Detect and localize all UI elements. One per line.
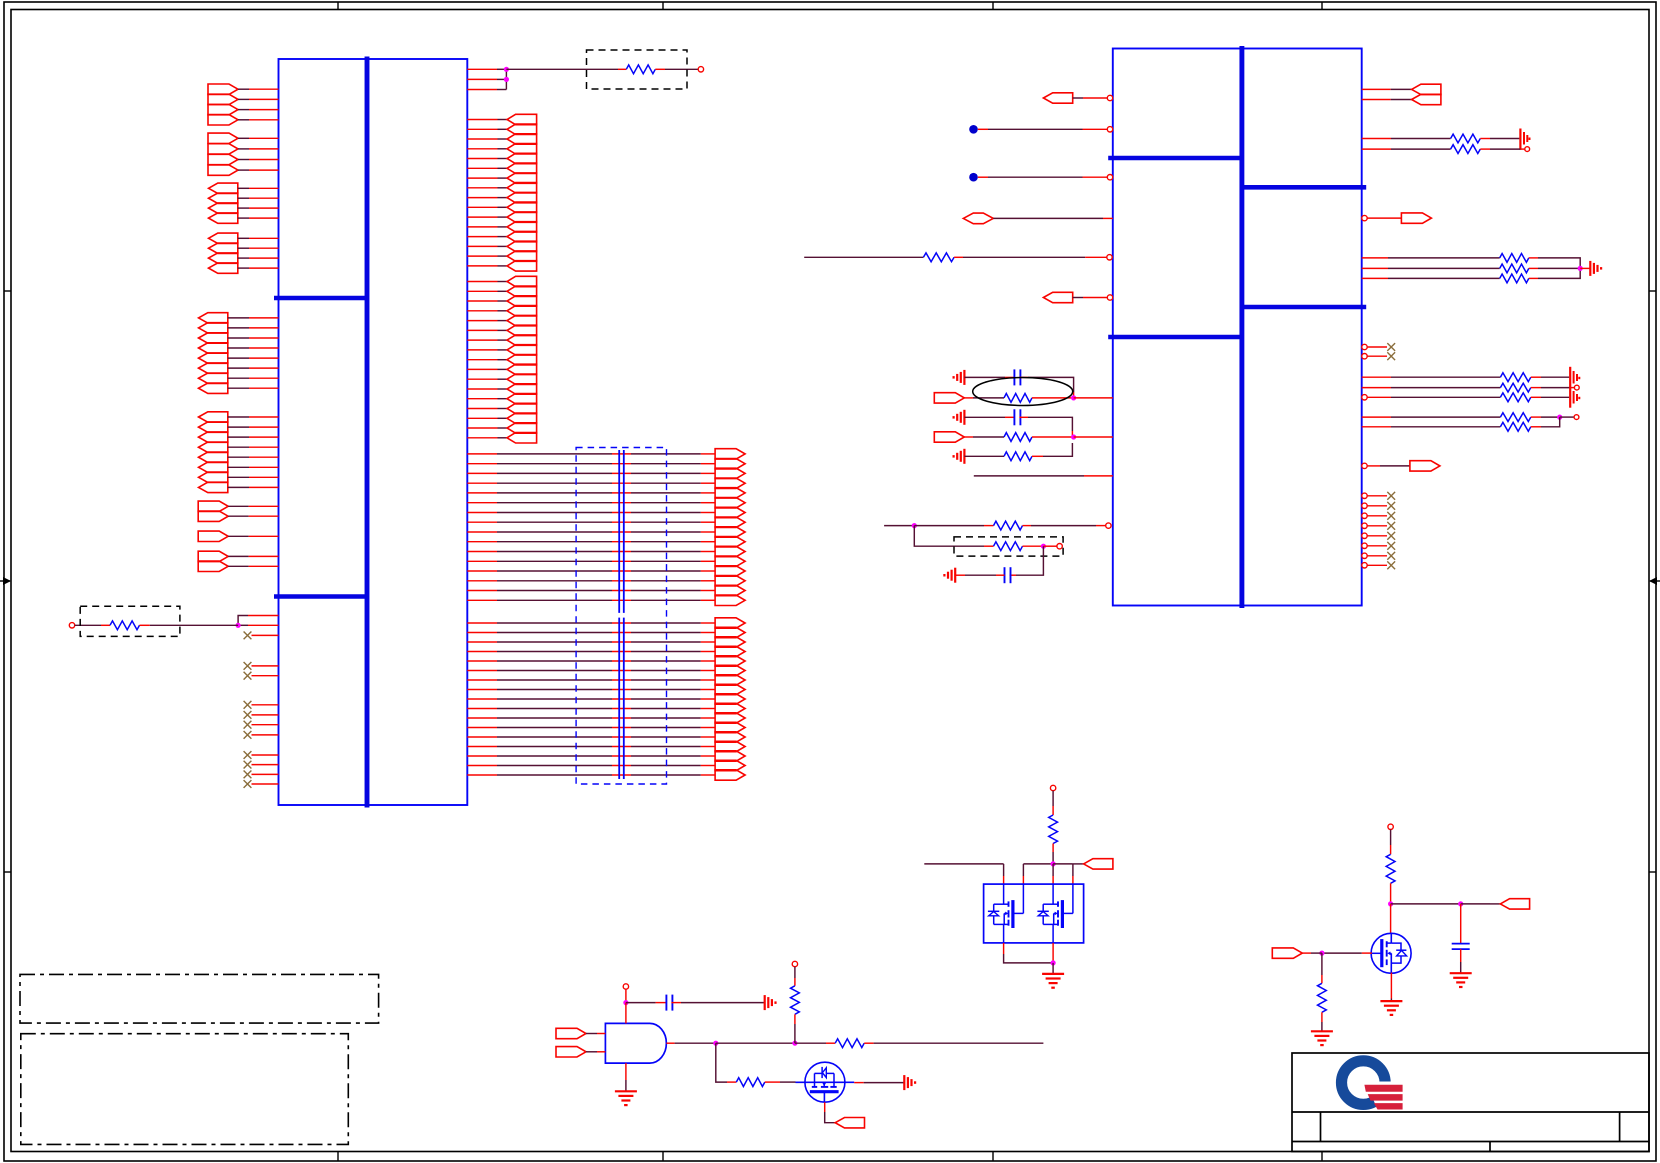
flag Q2 source [835, 1118, 864, 1128]
U2 pin R13 bubble [1362, 395, 1367, 400]
U1 output flag/pin group C1 [209, 183, 279, 193]
U1 input flag/pin group G1 [198, 501, 278, 511]
U2 pin RX2 bubble+X [1362, 502, 1395, 510]
wire J12 to J13 [716, 1042, 795, 1044]
transistor Q3 circle [1371, 933, 1411, 973]
wire W10 [884, 525, 914, 527]
U1 pin R1b wire [467, 78, 506, 80]
resistor R19 (vertical) [1049, 815, 1058, 844]
wire Q1A source [1004, 943, 1054, 963]
junction J6 [1041, 544, 1046, 549]
U1 output pin/flag col1-4 [467, 144, 536, 154]
U1 output pin/flag col1-11 [467, 212, 536, 222]
U2 pin R1 wire/flag [1362, 84, 1441, 94]
Q2 gate line [796, 1081, 855, 1083]
U2 pin R15 wire [1362, 426, 1501, 428]
wire J15 to flag [1461, 903, 1501, 905]
IC U1 thick divider [365, 57, 370, 808]
resistor R9 [1451, 134, 1481, 143]
U1 output flag/pin group C4 [209, 213, 279, 223]
U2 pin R16 wire/flag [1367, 461, 1440, 471]
wire P10 down [1390, 830, 1392, 855]
ground G11 (rotated) [904, 1075, 915, 1090]
Q1B gate link [1072, 884, 1074, 913]
U1 output pin/flag col2-13 [467, 394, 536, 404]
ground G4 (rotated) [944, 568, 955, 583]
ground G3 (rotated) [954, 449, 965, 464]
U2 pin L6 flag [1043, 292, 1107, 302]
wire C2 corner [1019, 417, 1072, 437]
wire Q2 source [825, 1102, 836, 1122]
wire R5 to junction [1032, 436, 1072, 438]
U1 output flag/pin group D2 [209, 243, 279, 253]
ground G13 [1311, 1031, 1333, 1045]
wire C1 corner [1019, 377, 1073, 398]
bus wire 15 [467, 585, 745, 595]
wire U3 bottom [625, 1063, 627, 1091]
wire R2 to terminal [655, 68, 698, 70]
flag VOUT [1500, 899, 1529, 909]
U1 output flag/pin group E4 [199, 343, 279, 353]
U1 output flag/pin group E3 [199, 333, 279, 343]
bus wire 13 [467, 566, 745, 576]
no-connect pin U1 X7 [244, 731, 279, 739]
IC U2 left section outline [1113, 49, 1242, 606]
U1 output pin/flag col2-6 [467, 325, 536, 335]
resistor R15 [1500, 383, 1530, 392]
U1 output flag/pin group F5 [199, 452, 279, 462]
U2 pin RX8 bubble+X [1362, 561, 1395, 569]
connector bar 2b [623, 618, 625, 779]
no-connect pin U1 X5 [244, 711, 279, 719]
wire G3 to R6 [965, 455, 1005, 457]
resistor R1 [110, 621, 140, 630]
wire R20 to J13 [794, 1014, 796, 1043]
ground bars G7 [1570, 367, 1579, 408]
U1 output pin/flag col1-2 [467, 124, 536, 134]
bus wire 28 [467, 722, 745, 732]
ellipse annotation [973, 378, 1073, 406]
bus wire 20 [467, 646, 745, 656]
bus wire 26 [467, 703, 745, 713]
U1 output flag/pin group E8 [199, 383, 279, 393]
bus wire 31 [467, 751, 745, 761]
no-connect pin U1 X1 [244, 632, 279, 640]
no-connect pin U1 X10 [244, 771, 279, 779]
resistor R12 [1500, 264, 1529, 273]
ground G10 [615, 1091, 637, 1105]
U2 pin RX1 bubble+X [1362, 492, 1395, 500]
wire R3 to U2 [954, 256, 1107, 258]
wire R6 corner up [1032, 443, 1072, 456]
U1 output pin/flag col1-8 [467, 183, 536, 193]
resistor R7 [994, 521, 1023, 530]
wire C4 to G9 [671, 1002, 764, 1004]
wire R9 to ground [1480, 138, 1519, 140]
wire R18 corner up [1531, 417, 1560, 427]
U2 pin L4 flag [963, 213, 1113, 224]
Q1A gate link [1022, 884, 1024, 913]
bus wire 6 [467, 498, 745, 508]
U1 output pin/flag col1-16 [467, 261, 536, 271]
net stub dot 2 [969, 173, 978, 182]
U1 output pin/flag col1-10 [467, 202, 536, 212]
U2 pin RX5 bubble+X [1362, 532, 1395, 540]
dash-dot box 2 [21, 1034, 349, 1145]
terminal circle P8 [623, 984, 628, 989]
U1 output pin/flag col2-2 [467, 286, 536, 296]
capacitor C1 [1014, 369, 1020, 385]
bus wire 10 [467, 537, 745, 547]
terminal circle P10 [1388, 824, 1393, 829]
wire C3 to G4 [955, 574, 1004, 576]
U1 output pin/flag col2-11 [467, 374, 536, 384]
U1 output flag/pin group E7 [199, 373, 279, 383]
resistor R16 [1500, 393, 1530, 402]
junction J5 [912, 523, 917, 528]
junction J13 [792, 1041, 797, 1046]
U1 output pin/flag col2-3 [467, 296, 536, 306]
junction J15 [1458, 901, 1463, 906]
capacitor C4 [666, 995, 672, 1011]
wire J14 to Q3 drain [1390, 904, 1392, 934]
junction J7 [1578, 266, 1583, 271]
U1 input flag/pin group B3 [208, 154, 279, 164]
wire J16 down [1321, 953, 1323, 983]
frame right arrow [1649, 577, 1660, 585]
U2 pin L10 bubble [1106, 523, 1111, 528]
ground G12 [1450, 973, 1472, 987]
junction J10 [1051, 960, 1056, 965]
terminal circle P1 [69, 623, 74, 628]
U1 input flag/pin group B4 [208, 165, 279, 175]
wire J15 down to C5 [1460, 904, 1462, 944]
terminal circle P6 [1574, 415, 1579, 420]
U2 pin R11 wire [1362, 376, 1501, 378]
bus wire 16 [467, 595, 745, 605]
U2 pin R9 bubble+X [1362, 343, 1395, 351]
capacitor C5 [1452, 944, 1470, 950]
resistor R2 [626, 65, 655, 74]
Q3 internals [1371, 934, 1406, 973]
junction at U1 J pins [236, 623, 241, 628]
ground G6 (rotated) [1590, 261, 1601, 276]
U1 output flag/pin group C3 [209, 203, 279, 213]
flag gate in [1272, 948, 1302, 958]
terminal circle P7 [1050, 785, 1055, 790]
U1 output pin/flag col1-1 [467, 114, 536, 124]
wire J11 to C4 [626, 1002, 667, 1004]
junction J16 [1319, 951, 1324, 956]
wire J6 to terminal [1043, 545, 1057, 547]
capacitor C3 [1005, 567, 1011, 583]
U2 pin L7 flag [934, 393, 1004, 403]
U1 output pin/flag col1-15 [467, 251, 536, 261]
U2 pin L1 bubble [1107, 95, 1112, 100]
U1 output flag/pin group F1 [199, 412, 279, 422]
U2 pin R12 wire [1362, 387, 1501, 389]
resistor R18 [1500, 422, 1530, 431]
U1 output flag/pin group D1 [209, 233, 279, 243]
resistor R10 [1451, 145, 1481, 154]
bus wire 25 [467, 694, 745, 704]
U2 pin RX3 bubble+X [1362, 512, 1395, 520]
terminal circle P3 [1057, 544, 1062, 549]
Q2 internals [810, 1067, 839, 1102]
terminal circle P5 [1574, 385, 1579, 390]
U1 input flag/pin group I1 [198, 551, 278, 561]
U1 pin R1c wire [467, 89, 506, 91]
MOSFET Q1B [1037, 884, 1073, 943]
bus wire 19 [467, 637, 745, 647]
junction J2 [504, 77, 509, 82]
resistor R23 (vertical) [1386, 854, 1395, 883]
wire P8 to J11 [625, 989, 627, 1002]
U1 output pin/flag col2-4 [467, 306, 536, 316]
wire Q3 gate [1322, 952, 1372, 954]
U2 pin RX7 bubble+X [1362, 552, 1395, 560]
dashed box around R2 [587, 50, 688, 89]
junction J4 [1071, 434, 1076, 439]
resistor R17 [1500, 413, 1530, 422]
U2 pin RX6 bubble+X [1362, 542, 1395, 550]
U1 output flag/pin group C2 [209, 193, 279, 203]
no-connect pin U1 X3 [244, 672, 279, 680]
connector bar 1a [618, 450, 620, 613]
U1 output pin/flag col2-1 [467, 276, 536, 286]
bus wire 29 [467, 732, 745, 742]
wire gate drop 1 [1003, 864, 1005, 884]
resistor R11 [1500, 254, 1529, 263]
resistor R20 (vertical) [791, 986, 800, 1015]
AND gate U3 [605, 1023, 666, 1063]
resistor R13 [1500, 274, 1529, 283]
MOSFET Q1A [988, 884, 1024, 943]
U2 pin L1 flag [1043, 93, 1107, 103]
wire J13 to R21 [795, 1042, 835, 1044]
U1 output flag/pin group F8 [199, 482, 279, 492]
transistor Q2 circle [805, 1062, 845, 1102]
bus wire 9 [467, 527, 745, 537]
wire R12 to junction [1529, 267, 1580, 269]
U2 pin L2 bubble [1107, 127, 1112, 132]
U2 pin R6 wire [1362, 257, 1500, 259]
connector bar 1b [618, 618, 620, 779]
flag dual-gate [1073, 859, 1113, 869]
wire flag branch [1053, 864, 1073, 884]
U2 pin L9 wire [974, 475, 1113, 477]
U1 output flag/pin group F3 [199, 432, 279, 442]
bus wire 11 [467, 546, 745, 556]
U1 output flag/pin group D4 [209, 263, 279, 273]
resistor R6 [1004, 452, 1032, 461]
U1 input flag/pin group B2 [208, 144, 279, 154]
bus wire 14 [467, 576, 745, 586]
U1 output pin/flag col2-7 [467, 335, 536, 345]
IC U1 right section outline [367, 59, 467, 805]
U1 output pin/flag col1-3 [467, 134, 536, 144]
resistor R22 [736, 1078, 765, 1087]
junction J1 [504, 67, 509, 72]
IC U2 right divider 1 [1242, 185, 1366, 190]
wire C5 to ground [1460, 949, 1462, 972]
IC U1 section divider 1 [274, 296, 367, 301]
wire gate bus [924, 863, 1003, 865]
wire Q3 source down [1390, 973, 1392, 1001]
wire R23 to J14 [1390, 883, 1392, 904]
dual MOSFET pack outline Q1 [984, 884, 1084, 943]
U1 input flag/pin group B1 [208, 133, 279, 143]
U2 pin R14 wire [1362, 416, 1501, 418]
dashed box around R8 [954, 537, 1063, 556]
U1 input flag/pin group G2 [198, 511, 278, 521]
bus wire 24 [467, 684, 745, 694]
terminal circle P9 [792, 961, 797, 966]
dashed connector box [576, 448, 666, 785]
bus wire 32 [467, 760, 745, 770]
U1 output flag/pin group E1 [199, 313, 279, 323]
bus wire 23 [467, 675, 745, 685]
U3 input flag 2 [556, 1047, 605, 1057]
U2 pin L5 bubble [1107, 255, 1112, 260]
wire J8 to terminal [1560, 416, 1574, 418]
IC U2 thick divider [1239, 46, 1244, 608]
bus wire 27 [467, 713, 745, 723]
resistor R3 [923, 253, 954, 262]
U2 pin L6 bubble [1107, 295, 1112, 300]
U2 pin RX4 bubble+X [1362, 522, 1395, 530]
IC U1 section divider 2 [274, 594, 367, 599]
U1 output flag/pin group E6 [199, 363, 279, 373]
junction J9 [1051, 861, 1056, 866]
U1 output flag/pin group F6 [199, 462, 279, 472]
wire J5 to R7 [914, 525, 993, 527]
wire to R1 [75, 624, 110, 626]
bus wire 12 [467, 556, 745, 566]
U1 output pin/flag col2-12 [467, 384, 536, 394]
wire G1 to C1 [965, 376, 1015, 378]
wire J10 to ground [1052, 963, 1054, 973]
wire P7 down [1052, 791, 1054, 815]
bus wire 22 [467, 665, 745, 675]
wire R14 to ground bars [1531, 376, 1569, 378]
wire R8 to J6 [1023, 545, 1044, 547]
net stub dot 1 [969, 125, 978, 134]
wire R13 corner [1529, 268, 1580, 278]
resistor R21 [835, 1039, 864, 1048]
no-connect pin U1 X9 [244, 761, 279, 769]
wire Q1B source [1052, 943, 1054, 963]
wire J7 to ground [1580, 267, 1589, 269]
wire R24 to ground [1321, 1012, 1323, 1030]
U1 pin R1a wire [467, 68, 506, 70]
wire U1 pin J2 [238, 624, 278, 626]
title block [1292, 1053, 1649, 1152]
U2 pin R4 wire [1362, 148, 1451, 150]
U1 output pin/flag col2-17 [467, 433, 536, 443]
ground G9 (rotated) [765, 995, 776, 1010]
U2 pin R7 wire [1362, 267, 1500, 269]
frame left arrow [0, 577, 11, 585]
U1 output flag/pin group F7 [199, 472, 279, 482]
wire U3 out [666, 1042, 715, 1044]
U1 input flag/pin group A4 [208, 115, 279, 125]
no-connect pin U1 X8 [244, 751, 279, 759]
bus wire 21 [467, 656, 745, 666]
bus wire 18 [467, 627, 745, 637]
U1 output pin/flag col2-8 [467, 345, 536, 355]
U1 output pin/flag col1-13 [467, 231, 536, 241]
U1 input flag/pin group I2 [198, 561, 278, 571]
wire stub L5 [804, 256, 923, 258]
wire J4 to U2 L8 [1074, 436, 1113, 438]
wire gate seg2 [1023, 864, 1053, 884]
bus wire 4 [467, 478, 745, 488]
junction J14 [1388, 901, 1393, 906]
U1 output pin/flag col2-9 [467, 355, 536, 365]
U1 output pin/flag col1-5 [467, 153, 536, 163]
terminal circle P4 [1525, 147, 1530, 152]
U2 pin R13 wire [1367, 396, 1500, 398]
wire R4 to junction [1032, 397, 1074, 399]
wire tie verticals [505, 69, 507, 89]
U1 output pin/flag col2-15 [467, 413, 536, 423]
U2 pin R5 wire/flag [1367, 213, 1431, 223]
resistor R14 [1500, 373, 1530, 382]
no-connect pin U1 X4 [244, 701, 279, 709]
U1 input flag/pin group A1 [208, 84, 279, 94]
bus wire 5 [467, 488, 745, 498]
U1 output flag/pin group E5 [199, 353, 279, 363]
bus wire 33 [467, 770, 745, 780]
bus wire 17 [467, 618, 745, 628]
bus wire 1 [467, 449, 745, 459]
U1 input flag/pin group A2 [208, 94, 279, 104]
wire R15 to terminal [1531, 387, 1574, 389]
terminal circle P2 [698, 67, 703, 72]
connector bar 2a [623, 450, 625, 613]
U2 pin L3 wire [978, 176, 1108, 178]
resistor R8 [994, 542, 1023, 551]
wire J11 to U3 [625, 1003, 627, 1024]
wire U1 pin J1 [238, 616, 278, 626]
wire J6 down to C3 [1010, 546, 1044, 575]
U1 output pin/flag col2-10 [467, 364, 536, 374]
U1 input flag/pin H1 [198, 531, 278, 541]
dash-dot box 1 [20, 974, 379, 1023]
resistor R4 [1004, 394, 1032, 403]
IC U2 left divider 2 [1108, 335, 1242, 340]
junction J12 [713, 1041, 718, 1046]
wire R21 stub [864, 1042, 1043, 1044]
U1 output pin/flag col2-5 [467, 315, 536, 325]
wire to R2 [506, 68, 626, 70]
U3 input flag 1 [556, 1028, 605, 1038]
wire J3 to U2 L7 [1074, 397, 1113, 399]
IC U2 left divider 1 [1108, 156, 1242, 161]
wire J9 into pack [1052, 864, 1054, 884]
wire Q2 right [854, 1082, 903, 1084]
no-connect pin U1 X6 [244, 721, 279, 729]
bus wire 2 [467, 459, 745, 469]
wire G2 to C2 [965, 416, 1015, 418]
U2 pin L2 wire [978, 128, 1108, 130]
no-connect pin U1 X11 [244, 780, 279, 788]
Quectel logo [1342, 1061, 1407, 1111]
U2 pin L8 flag [934, 432, 1004, 442]
U1 output pin/flag col1-9 [467, 192, 536, 202]
bus wire 3 [467, 468, 745, 478]
